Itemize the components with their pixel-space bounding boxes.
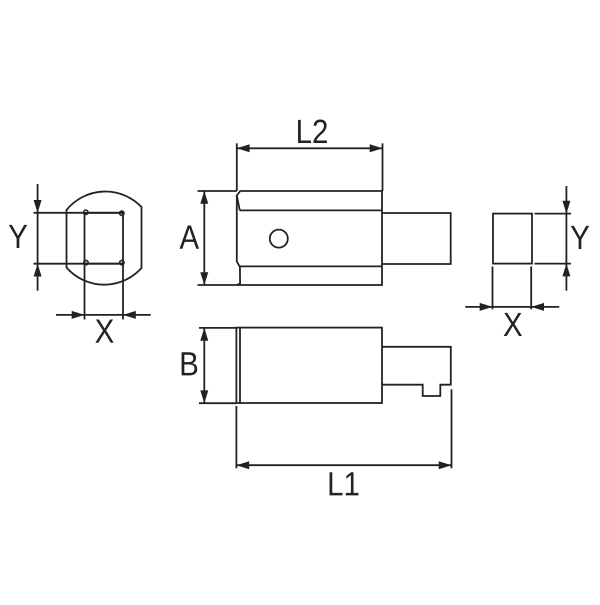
left view: X dim arrow left — [123, 311, 136, 319]
label X left — [95, 320, 113, 343]
top view: L2 dimension line — [237, 147, 383, 149]
label B — [182, 352, 198, 375]
right view: tang square — [493, 214, 532, 264]
left view: Y dim arrow down — [34, 200, 42, 213]
top view: A top extension line — [198, 190, 237, 192]
label Y left — [9, 225, 27, 248]
top view: chamfer facet edge — [237, 196, 240, 211]
side view: body rectangle — [236, 328, 382, 403]
top view: L2 arrow right — [370, 144, 383, 152]
left view: X dim arrow right — [72, 311, 85, 319]
side view: B arrow up — [200, 328, 208, 341]
left view: corner radius top-left — [84, 210, 88, 214]
left view: Y dimension line — [37, 184, 39, 291]
side view: tang with detent pin — [382, 347, 451, 396]
label A — [180, 226, 200, 249]
left view: X left extension line — [84, 264, 86, 320]
side view: B top extension line — [199, 327, 236, 329]
left view: corner radius top-right — [120, 211, 124, 215]
top view: lower chamfer line — [240, 265, 382, 267]
side view: B bottom extension line — [199, 402, 236, 404]
top view: A arrow up — [200, 191, 208, 204]
left view: corner radius bottom-left — [84, 260, 88, 264]
side view: B dimension line — [203, 328, 205, 403]
left view: X dimension line — [56, 314, 151, 316]
side view: left end inner line — [239, 328, 241, 403]
top view: square tang — [382, 213, 451, 264]
right view: X left extension line — [492, 267, 494, 310]
top view: A arrow down — [200, 272, 208, 285]
top view: L2 right extension line — [382, 143, 384, 191]
top view: body outline with chamfered left corners — [237, 191, 382, 285]
side view: L1 left extension line — [235, 406, 237, 468]
right view: X arrow right — [480, 303, 493, 311]
right view: X dimension line — [465, 306, 559, 308]
side view: L1 right extension line — [451, 389, 453, 468]
side view: L1 arrow left — [236, 461, 249, 469]
top view: L2 arrow left — [237, 144, 250, 152]
top view: A dimension line — [203, 191, 205, 285]
side view: L1 arrow right — [439, 461, 452, 469]
right view: Y arrow up — [562, 264, 570, 277]
left view: square drive hole — [85, 213, 124, 264]
right view: Y bottom extension line — [535, 263, 572, 265]
side view: L1 dimension line — [236, 464, 451, 466]
label L2 — [298, 120, 327, 143]
right view: X arrow left — [531, 303, 544, 311]
top view: L2 left extension line — [236, 143, 238, 191]
right view: X right extension line — [530, 267, 532, 310]
left view: X right extension line — [122, 264, 124, 320]
label X right — [504, 313, 522, 336]
left view: corner radius bottom-right — [120, 260, 124, 264]
right view: Y dimension line — [565, 186, 567, 291]
side view: B arrow down — [200, 390, 208, 403]
top view: pin hole — [270, 230, 288, 248]
left view: outer body profile — [67, 192, 142, 285]
left view: Y dim arrow up — [34, 264, 42, 277]
label Y right — [571, 226, 589, 249]
top view: A bottom extension line — [198, 284, 237, 286]
label L1 — [330, 472, 359, 495]
top view: upper chamfer line — [240, 209, 382, 211]
right view: Y arrow down — [562, 201, 570, 214]
right view: Y top extension line — [535, 213, 572, 215]
left view: Y top extension line — [34, 212, 124, 214]
left view: Y bottom extension line — [34, 263, 124, 265]
